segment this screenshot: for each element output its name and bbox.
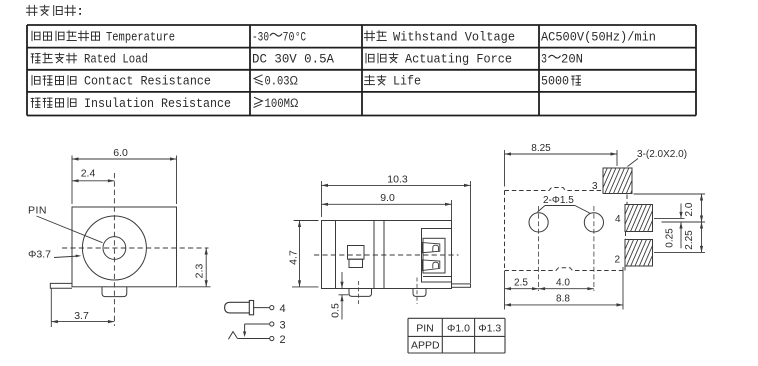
svg-text:8.8: 8.8 [556,294,570,305]
svg-text:6.0: 6.0 [113,147,128,159]
dimension 8.25 [505,143,618,187]
svg-text:PIN: PIN [416,323,434,335]
svg-text:APPD: APPD [411,340,440,352]
dimension 2.0 [684,194,703,222]
label pad 4 [615,214,621,225]
svg-text:4.7: 4.7 [288,250,300,265]
cell value AC500V(50Hz)/min [541,30,656,44]
svg-text:Life: Life [393,75,421,89]
cell 使用温度范围 Temperature [32,30,175,44]
label pad 3 [592,181,598,192]
svg-text:4: 4 [615,214,621,225]
svg-text:2.4: 2.4 [81,167,96,179]
side view rear solder pin [452,284,471,287]
svg-text:0.03: 0.03 [265,75,290,89]
side view solder tab 1 [349,281,372,304]
svg-text:2-Φ1.5: 2-Φ1.5 [543,195,574,206]
svg-text:Contact Resistance: Contact Resistance [84,75,211,89]
svg-text:-30: -30 [252,30,269,44]
pad 3 hatched [592,168,642,194]
svg-text:2.3: 2.3 [194,264,206,279]
front view bottom solder tab [102,287,127,297]
dimension 10.3 [322,173,471,283]
wire pin 3 with switch arrow [243,324,270,337]
svg-text:3: 3 [280,320,286,332]
dimension 2.25 [684,222,703,252]
wire plug to pin 4 [254,307,270,309]
front view horizontal center line [62,247,209,249]
svg-text:2.5: 2.5 [514,278,528,289]
dimension 3.7 [51,288,114,327]
side view lower terminal with slot [422,260,439,271]
svg-text:8.25: 8.25 [531,143,551,154]
svg-text:AC500V(50Hz)/min: AC500V(50Hz)/min [541,30,656,44]
dimension 9.0 [322,192,452,221]
svg-text:Φ1.3: Φ1.3 [478,323,501,335]
label pad 2 [615,255,621,266]
dimension 4.0 [539,278,594,291]
svg-text:0.5: 0.5 [330,303,342,318]
label phi3.7 with leader [28,249,81,261]
svg-text:5000: 5000 [541,75,569,89]
front view body [72,207,177,287]
svg-text:PIN: PIN [28,205,47,217]
svg-text:10.3: 10.3 [387,173,408,185]
plug symbol barrel [225,301,254,315]
cell 接触电阻 Contact Resistance [32,75,211,89]
svg-text:9.0: 9.0 [380,192,395,204]
mounting hole right [584,213,603,232]
dimension 6.0 [72,147,177,204]
pin 3 terminal [270,322,274,326]
dimension 2.5 [505,271,539,310]
side view left cap divider [335,221,337,289]
svg-text:Φ1.0: Φ1.0 [447,323,470,335]
front view center pin circle [103,237,126,260]
svg-text:Withstand Voltage: Withstand Voltage [393,30,515,44]
svg-text:100M: 100M [265,97,291,111]
front view left mounting tab [50,283,72,288]
side view latch window [348,246,365,268]
label PIN with leader [28,205,103,243]
pin table value phi1.0 [447,323,470,335]
svg-text:3: 3 [541,53,547,67]
dimension 4.7 [288,221,319,287]
pin table value phi1.3 [478,323,501,335]
svg-text:2: 2 [280,334,286,346]
svg-text:3.7: 3.7 [74,310,89,322]
hole center line left [538,206,540,291]
svg-text:Ω: Ω [290,98,299,110]
pin 2 terminal [270,336,274,340]
svg-text:2.0: 2.0 [684,202,695,216]
dimension 0.25 [665,204,683,249]
pin 4 terminal [270,306,274,310]
label pin 2 [280,334,286,346]
svg-text:Ω: Ω [290,76,299,88]
dimension 8.8 [505,267,624,310]
label 2-phi1.5 with leaders [538,195,591,214]
pin table text PIN [416,323,434,335]
cell value <=0.03 ohm [254,75,298,89]
label 3-(2.0X2.0) with leader [628,149,688,167]
svg-text:DC 30V 0.5A: DC 30V 0.5A [252,53,334,67]
svg-text:4.0: 4.0 [556,278,570,289]
dimension 2.4 [72,167,114,182]
wire pin 2 with spring contact [228,332,269,340]
cell value -30~70°C [252,30,306,44]
extension lines right dims [634,194,706,252]
svg-text:3-(2.0X2.0): 3-(2.0X2.0) [637,149,687,160]
svg-text:Actuating Force: Actuating Force [405,53,512,67]
hole center line right [593,206,595,291]
cell value 3~20N [541,53,583,67]
side view body outline [322,221,452,289]
cell 绝缘电阻 Insulation Resistance [31,97,231,111]
svg-text:Rated Load: Rated Load [84,53,148,67]
svg-text:3: 3 [592,181,598,192]
svg-text:Insulation Resistance: Insulation Resistance [84,97,231,111]
cell 寿命 Life [365,75,422,89]
side view socket housing [422,229,452,283]
svg-text:4: 4 [280,303,286,315]
svg-text:20N: 20N [561,53,583,67]
side view center line [314,254,459,256]
front view vertical center line [113,173,115,326]
pad 2 hatched [614,240,664,267]
cell value >=100M ohm [254,97,299,111]
cell 额定负荷 Rated Load [31,53,148,67]
svg-text:70: 70 [283,30,295,44]
svg-text:Φ3.7: Φ3.7 [28,249,51,261]
cell 耐压 Withstand Voltage [365,30,516,44]
spec table grid [27,25,696,116]
label pin 4 [280,303,286,315]
side view socket inner wall [423,238,452,276]
svg-text:2.25: 2.25 [684,230,695,250]
cell 插拔力 Actuating Force [366,53,512,67]
cell value 5000次 [541,75,581,89]
svg-text:2: 2 [615,255,621,266]
dimension 2.3 [179,248,211,287]
mounting hole left 2-phi1.5 [529,213,548,232]
svg-text:°C: °C [295,30,306,44]
svg-text:Temperature: Temperature [106,30,175,44]
pcb outline dashed [505,188,628,271]
side view mid dividers [374,221,384,289]
dimension 0.5 [330,272,349,320]
pin size table grid [408,318,505,353]
pin table text APPD [411,340,440,352]
cell value DC 30V 0.5A [252,53,334,67]
label pin 3 [280,320,286,332]
pad 4 hatched [613,205,663,232]
side view solder tab 2 [413,278,426,305]
title 技术指标: [27,5,81,15]
svg-text:0.25: 0.25 [665,228,676,248]
front view barrel circle phi 3.7 [82,216,146,280]
side view upper terminal with slot [422,243,439,253]
